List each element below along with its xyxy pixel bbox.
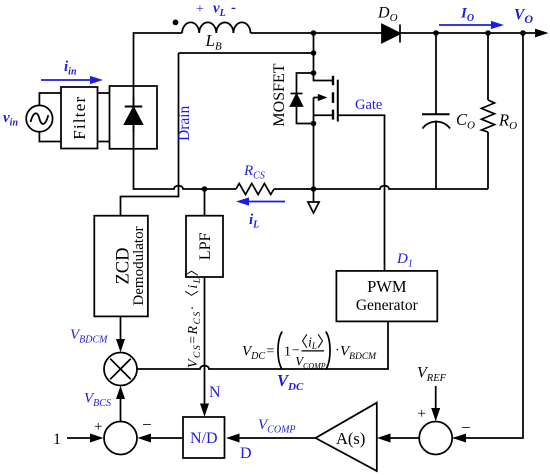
arrow iin bbox=[41, 79, 90, 81]
svg-text:PWM: PWM bbox=[367, 277, 407, 296]
amplifier A(s) bbox=[316, 403, 377, 471]
wire: filter to bridge top bbox=[98, 92, 110, 94]
svg-text:LPF: LPF bbox=[197, 232, 214, 260]
svg-text:MOSFET: MOSFET bbox=[271, 63, 288, 126]
summing junction right bbox=[419, 422, 452, 455]
svg-text:·: · bbox=[335, 344, 340, 359]
wire: inductor to diode bbox=[251, 32, 383, 34]
wire: VBCS summer to multiplier bbox=[120, 398, 122, 422]
svg-text:−: − bbox=[461, 418, 471, 437]
wire: VDC line multiplier to PWM bbox=[137, 321, 388, 369]
wire: feedback line right side bbox=[454, 33, 524, 438]
node mosfet drain bbox=[311, 70, 317, 76]
node at CO branch bbox=[433, 30, 439, 36]
svg-text:vL: vL bbox=[213, 1, 226, 20]
summing junction left bbox=[104, 422, 137, 455]
diode DO bbox=[382, 25, 400, 43]
node LPF tap bbox=[202, 186, 208, 192]
svg-text:VDC: VDC bbox=[242, 344, 265, 363]
svg-text:A(s): A(s) bbox=[336, 429, 365, 448]
svg-text:+: + bbox=[418, 406, 426, 422]
resistor RO bbox=[482, 33, 495, 189]
wire: ground rail right of RCS bbox=[274, 186, 488, 189]
PWM generator box bbox=[336, 271, 437, 322]
svg-text:〈iL〉: 〈iL〉 bbox=[293, 334, 332, 352]
arrow iL bbox=[249, 201, 285, 203]
wire: drain sense horizontal bbox=[179, 52, 314, 54]
inductor LB bbox=[182, 22, 250, 33]
arrowhead into N/D bbox=[226, 434, 240, 443]
svg-text:RO: RO bbox=[498, 111, 517, 133]
node at drain branch bbox=[311, 30, 317, 36]
svg-text:DO: DO bbox=[377, 5, 398, 25]
svg-text:VDC: VDC bbox=[277, 371, 304, 393]
wire: output rail with arrow bbox=[400, 32, 536, 34]
wire: filter to bridge bottom bbox=[98, 141, 110, 143]
input 1 arrow bbox=[67, 437, 91, 439]
equation VDC bbox=[242, 332, 377, 371]
capacitor CO bbox=[422, 33, 450, 189]
wire: ground rail with hops bbox=[134, 86, 237, 189]
svg-text:VO: VO bbox=[514, 7, 533, 27]
node at RO branch bbox=[485, 30, 491, 36]
svg-text:N/D: N/D bbox=[190, 430, 218, 447]
wire: source to filter top bbox=[39, 93, 61, 105]
svg-text:-: - bbox=[231, 0, 236, 16]
VREF arrow bbox=[435, 386, 437, 409]
arrowhead into A(s) bbox=[377, 434, 391, 443]
filter box bbox=[61, 87, 98, 149]
node drain-sense junction bbox=[311, 50, 317, 56]
svg-text:+: + bbox=[196, 2, 204, 17]
N/D box bbox=[183, 417, 225, 458]
resistor RCS bbox=[236, 184, 274, 195]
svg-text:Demodulator: Demodulator bbox=[131, 226, 147, 305]
svg-text:Drain: Drain bbox=[176, 105, 193, 141]
bridge rectifier box bbox=[110, 86, 158, 149]
arrowhead into left summer bbox=[138, 434, 152, 443]
svg-text:Filter: Filter bbox=[70, 96, 89, 140]
polarity dot bbox=[173, 20, 179, 26]
arrowhead feedback into summer bbox=[452, 434, 466, 443]
wire: summer to A(s) bbox=[390, 437, 419, 439]
bridge diode bbox=[125, 97, 143, 132]
node mosfet source bbox=[311, 121, 317, 127]
node at feedback branch bbox=[520, 30, 526, 36]
svg-text:vin: vin bbox=[3, 110, 18, 129]
wire: LPF tap bbox=[204, 189, 206, 216]
AC source Vin bbox=[26, 105, 52, 131]
wire: source to filter bottom bbox=[39, 132, 61, 142]
svg-text:VCS=RCS·〈iL〉: VCS=RCS·〈iL〉 bbox=[185, 261, 203, 368]
svg-text:VBDCM: VBDCM bbox=[340, 344, 377, 363]
svg-text:D1: D1 bbox=[396, 251, 413, 270]
mosfet Q1 bbox=[314, 73, 338, 124]
svg-text:VREF: VREF bbox=[417, 365, 447, 385]
wire: A(s) to N/D bbox=[239, 437, 316, 439]
wire: gate line to PWM bbox=[338, 115, 385, 271]
wire: VCS line LPF to N/D bbox=[204, 277, 206, 404]
wire: drain sense line down to ZCD bbox=[121, 53, 179, 216]
svg-text:RCS: RCS bbox=[243, 163, 265, 182]
ZCD demodulator box bbox=[94, 216, 148, 317]
svg-text:1: 1 bbox=[284, 345, 291, 360]
svg-text:VBCS: VBCS bbox=[84, 391, 111, 410]
multiplier bbox=[104, 353, 137, 386]
svg-text:−: − bbox=[142, 415, 152, 434]
node source-ground bbox=[311, 186, 317, 192]
svg-text:iL: iL bbox=[249, 212, 259, 231]
svg-text:Gate: Gate bbox=[355, 97, 382, 113]
wire: bridge top to top rail bbox=[134, 33, 183, 86]
output rail arrowhead bbox=[535, 29, 549, 38]
wire: source down to ground rail bbox=[313, 124, 315, 190]
svg-text:iin: iin bbox=[64, 59, 77, 78]
wire: ZCD to multiplier bbox=[120, 316, 122, 340]
svg-text:IO: IO bbox=[460, 6, 474, 25]
mosfet body diode bbox=[291, 73, 314, 124]
svg-text:D: D bbox=[240, 445, 252, 462]
ground symbol bbox=[308, 189, 319, 213]
svg-text:LB: LB bbox=[205, 31, 222, 53]
svg-text:CO: CO bbox=[456, 110, 475, 132]
svg-text:VCOMP: VCOMP bbox=[295, 355, 325, 371]
wire: drain vertical from top rail bbox=[313, 33, 315, 73]
svg-text:+: + bbox=[94, 419, 102, 435]
arrow IO bbox=[439, 24, 491, 26]
svg-text:VCOMP: VCOMP bbox=[258, 417, 296, 436]
svg-text:=: = bbox=[267, 344, 275, 359]
svg-text:Generator: Generator bbox=[356, 297, 419, 314]
LPF box bbox=[186, 216, 223, 277]
svg-text:N: N bbox=[209, 384, 221, 401]
svg-text:1: 1 bbox=[53, 431, 61, 448]
svg-text:VBDCM: VBDCM bbox=[70, 327, 108, 346]
wire: N/D to left summer bbox=[150, 437, 183, 439]
